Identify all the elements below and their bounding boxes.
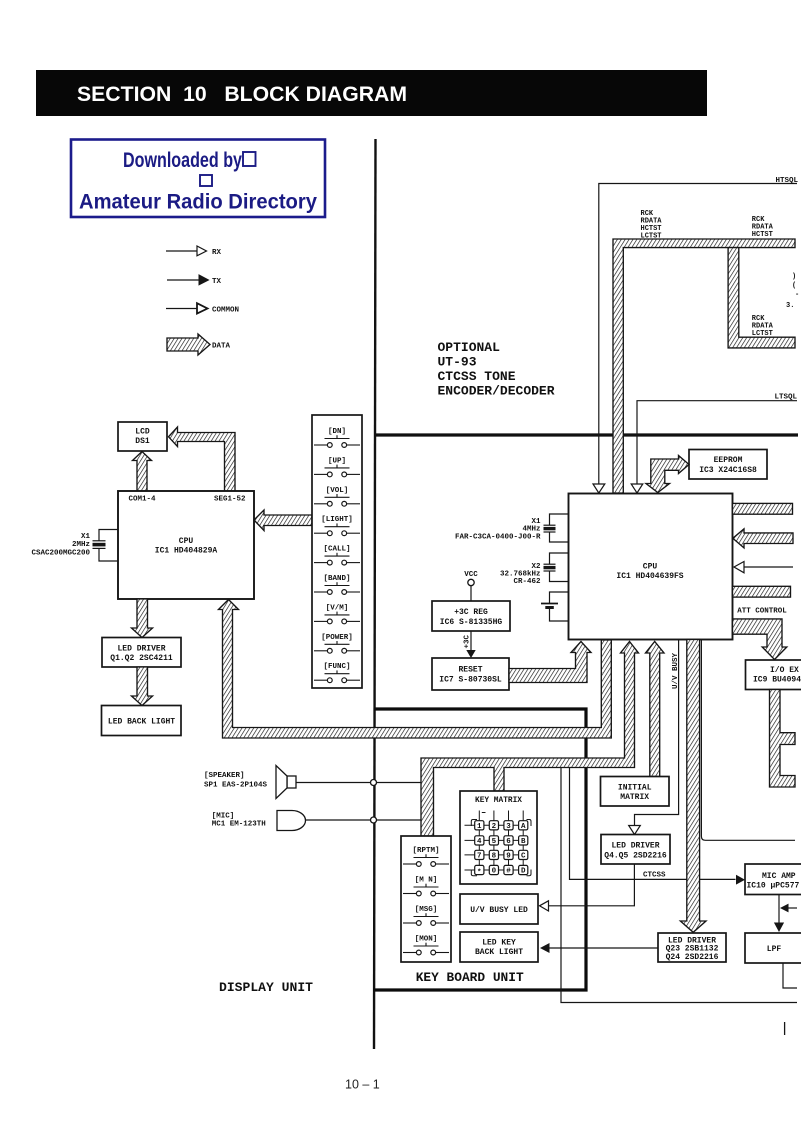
front panel switches DN..FUNC — [312, 415, 362, 688]
wire CTCSS feed (from bus down) — [570, 768, 736, 880]
svg-text:DS1: DS1 — [135, 437, 150, 446]
svg-text:OPTIONAL: OPTIONAL — [438, 340, 501, 355]
svg-text:MIC AMP: MIC AMP — [762, 872, 796, 881]
switch [VOL] — [314, 487, 360, 506]
display unit border line — [374, 139, 376, 1049]
data bus ATT control to I/O expander — [733, 619, 787, 660]
reset IC7 — [432, 658, 509, 690]
svg-text:+3C: +3C — [464, 634, 472, 648]
key 1 — [475, 821, 484, 831]
switch [MON] — [403, 936, 449, 955]
svg-text:ATT CONTROL: ATT CONTROL — [737, 608, 787, 616]
svg-text:CPU: CPU — [179, 537, 194, 546]
cpu IC1 HD404639FS — [569, 494, 733, 640]
svg-text:IC6 S-81335HG: IC6 S-81335HG — [440, 618, 503, 627]
svg-text:SECTION 10 BLOCK DIAGRAM: SECTION 10 BLOCK DIAGRAM — [77, 82, 407, 106]
initial matrix box — [601, 777, 670, 807]
key D — [519, 865, 528, 875]
keyboard switch column box — [401, 836, 451, 962]
switch [M N] — [403, 877, 449, 896]
svg-text:LED BACK LIGHT: LED BACK LIGHT — [108, 718, 175, 727]
svg-text:[FUNC]: [FUNC] — [323, 663, 350, 671]
VCC terminal — [464, 571, 478, 601]
svg-text:Q1.Q2 2SC4211: Q1.Q2 2SC4211 — [110, 654, 173, 663]
key 6 — [504, 836, 513, 846]
key * — [475, 865, 484, 877]
keyboard unit border — [373, 709, 586, 990]
data bus keyboard: CPU to key matrix and switches — [421, 642, 639, 837]
EEPROM IC3 — [689, 450, 767, 480]
key 8 — [489, 850, 498, 860]
key 2 — [489, 821, 498, 831]
crystal X2 32.768kHz — [500, 553, 569, 586]
svg-text:[MIC]: [MIC] — [212, 813, 235, 821]
data bus CTCSS unit lower branch — [728, 248, 795, 348]
svg-text:MC1 EM-123TH: MC1 EM-123TH — [212, 821, 266, 829]
svg-text:[SPEAKER]: [SPEAKER] — [204, 772, 245, 780]
svg-text:): ) — [792, 273, 796, 281]
node speaker junction — [371, 780, 377, 786]
wire speaker to keyboard — [296, 782, 422, 784]
svg-text:B: B — [521, 838, 526, 846]
svg-text:*: * — [477, 869, 482, 877]
wire page edge tick — [784, 1022, 786, 1035]
regulator IC6 — [432, 601, 510, 631]
data bus CPU to LED driver Q23 — [680, 640, 706, 933]
section header bar — [36, 70, 707, 116]
wire HTSQL — [593, 177, 799, 493]
arrow CTCSS into mic amp — [736, 875, 745, 885]
svg-text:COM1-4: COM1-4 — [129, 496, 157, 504]
svg-text:(: ( — [792, 282, 796, 290]
svg-text:A: A — [521, 823, 526, 831]
svg-text:+3C REG: +3C REG — [454, 608, 488, 617]
key # — [504, 865, 513, 875]
svg-text:I/O EX: I/O EX — [770, 666, 799, 675]
svg-text:CTCSS: CTCSS — [643, 872, 666, 880]
svg-text:10 – 1: 10 – 1 — [345, 1078, 380, 1092]
switch [LIGHT] — [314, 516, 360, 535]
legend TX arrow — [167, 275, 222, 286]
svg-text:C: C — [521, 853, 526, 861]
data bus LED driver to back light — [132, 667, 153, 706]
switch [BAND] — [314, 575, 360, 594]
svg-text:BACK LIGHT: BACK LIGHT — [475, 948, 523, 957]
I/O expander IC9 — [746, 660, 801, 690]
svg-text:2MHz: 2MHz — [72, 541, 90, 549]
svg-text:[MON]: [MON] — [415, 936, 438, 944]
wire LED driver Q23 to LED key back light — [550, 947, 659, 949]
svg-text:CSAC200MGC200: CSAC200MGC200 — [31, 550, 90, 558]
svg-text:EEPROM: EEPROM — [714, 456, 743, 465]
svg-text:HTSQL: HTSQL — [776, 177, 799, 185]
svg-text:2: 2 — [492, 823, 497, 831]
svg-text:RESET: RESET — [458, 666, 482, 675]
key 3 — [504, 821, 513, 831]
svg-text:-: - — [795, 291, 799, 299]
key 7 — [475, 850, 484, 860]
wire LPF output — [783, 963, 797, 988]
svg-text:[BAND]: [BAND] — [323, 575, 350, 583]
svg-text:LED KEY: LED KEY — [482, 939, 516, 948]
svg-text:LCTST: LCTST — [752, 330, 773, 338]
wire regulator to reset — [470, 631, 472, 651]
wire LTSQL — [631, 394, 797, 494]
switch [CALL] — [314, 546, 360, 565]
svg-text:VCC: VCC — [464, 571, 478, 579]
data bus reset to CPU — [509, 642, 591, 683]
net labels RCK RDATA HCTST — [752, 216, 774, 239]
LED key back light box — [460, 932, 538, 962]
svg-text:CPU: CPU — [643, 563, 658, 572]
wire long output to right edge — [561, 768, 797, 1003]
svg-text:[LIGHT]: [LIGHT] — [321, 516, 353, 524]
key 9 — [504, 850, 513, 860]
cpu IC1 HD404829A — [118, 491, 254, 599]
svg-text:1: 1 — [477, 823, 482, 831]
svg-text:5: 5 — [492, 838, 497, 846]
svg-text:LCTST: LCTST — [641, 233, 662, 241]
svg-text:DATA: DATA — [212, 343, 231, 351]
svg-text:SP1 EAS-2P104S: SP1 EAS-2P104S — [204, 782, 268, 790]
legend COMMON arrow — [166, 303, 239, 314]
U/V busy LED box — [460, 894, 538, 924]
data bus CPU to LED driver — [132, 599, 153, 638]
svg-text:MATRIX: MATRIX — [620, 793, 649, 802]
data bus I/O expander outputs — [770, 690, 796, 788]
svg-text:LTSQL: LTSQL — [775, 394, 798, 402]
net labels RCK RDATA LCTST — [752, 315, 774, 338]
svg-text:ENCODER/DECODER: ENCODER/DECODER — [438, 384, 555, 399]
LED driver Q4 Q5 — [601, 835, 670, 865]
svg-text:8: 8 — [492, 853, 497, 861]
speaker SP1 — [204, 766, 296, 799]
svg-text:9: 9 — [506, 853, 511, 861]
svg-text:DISPLAY UNIT: DISPLAY UNIT — [219, 980, 313, 995]
svg-text:UT-93: UT-93 — [438, 355, 477, 370]
svg-text:IC7 S-80730SL: IC7 S-80730SL — [439, 676, 502, 685]
svg-text:SEG1-52: SEG1-52 — [214, 496, 246, 504]
svg-text:KEY BOARD UNIT: KEY BOARD UNIT — [416, 970, 524, 985]
switch [V/M] — [314, 604, 360, 623]
svg-text:RX: RX — [212, 249, 222, 257]
data bus left CPU to main CPU — [219, 600, 612, 739]
svg-text:3: 3 — [506, 823, 511, 831]
data bus CPU COM1-4 to LCD — [133, 452, 152, 492]
legend RX arrow — [166, 246, 222, 257]
key matrix wiring — [465, 811, 532, 876]
switch [UP] — [314, 457, 360, 476]
OPTIONAL UT-93 label — [438, 340, 555, 399]
wire U/V busy CPU to LED driver Q4Q5 — [635, 640, 679, 826]
switch [MSG] — [403, 906, 449, 925]
svg-text:[VOL]: [VOL] — [326, 487, 349, 495]
svg-text:0: 0 — [492, 868, 497, 876]
svg-text:Q24 2SD2216: Q24 2SD2216 — [666, 953, 719, 962]
svg-text:6: 6 — [506, 838, 511, 846]
svg-text:D: D — [521, 868, 526, 876]
LCD DS1 — [118, 422, 167, 451]
svg-text:LED DRIVER: LED DRIVER — [611, 842, 659, 851]
switch [FUNC] — [314, 663, 360, 682]
wire from page edge into node — [788, 907, 798, 909]
optional unit bottom border line — [376, 433, 798, 436]
svg-text:4: 4 — [477, 838, 482, 846]
wire into CPU right — [744, 566, 793, 568]
svg-text:#: # — [506, 868, 511, 876]
wire AF out along bus — [701, 640, 795, 841]
svg-text:[MSG]: [MSG] — [415, 906, 438, 914]
switch [POWER] — [314, 634, 360, 653]
svg-text:3.: 3. — [786, 302, 794, 310]
downloaded-by stamp box — [71, 140, 325, 218]
svg-text:KEY MATRIX: KEY MATRIX — [475, 796, 522, 805]
svg-text:Q4.Q5 2SD2216: Q4.Q5 2SD2216 — [604, 852, 667, 861]
svg-text:[V/M]: [V/M] — [326, 604, 349, 612]
key C — [519, 850, 528, 860]
key matrix box — [460, 791, 537, 884]
svg-text:[M N]: [M N] — [415, 877, 438, 885]
node mic junction — [371, 817, 377, 823]
svg-text:[UP]: [UP] — [328, 457, 346, 465]
svg-text:Amateur Radio Directory: Amateur Radio Directory — [79, 191, 317, 214]
svg-text:X1: X1 — [81, 533, 91, 541]
microphone MC1 — [212, 811, 306, 831]
svg-text:IC1 HD404829A: IC1 HD404829A — [155, 547, 218, 556]
net labels RCK RDATA HCTST LCTST — [641, 210, 663, 241]
wire mic to keyboard — [306, 819, 422, 821]
svg-text:IC9 BU4094: IC9 BU4094 — [753, 676, 801, 685]
svg-text:IC10 µPC577: IC10 µPC577 — [747, 882, 800, 891]
clipped text fragments at page edge — [786, 273, 799, 310]
svg-text:4MHz: 4MHz — [522, 526, 540, 534]
svg-text:IC3 X24C16S8: IC3 X24C16S8 — [699, 466, 757, 475]
svg-text:LED DRIVER: LED DRIVER — [117, 645, 165, 654]
data bus CPU right port lower — [733, 586, 791, 597]
wire mic amp to LPF — [778, 895, 780, 924]
svg-text:[DN]: [DN] — [328, 428, 346, 436]
battery backup cell — [541, 592, 569, 621]
switch [RPTM] — [403, 847, 449, 866]
svg-text:COMMON: COMMON — [212, 307, 239, 315]
key 0 — [489, 865, 498, 875]
LPF box — [745, 933, 801, 963]
key 4 — [475, 836, 484, 846]
data bus CPU SEG1-52 to LCD — [169, 427, 236, 491]
data bus CPU right port upper — [733, 503, 793, 514]
svg-text:LCD: LCD — [135, 428, 150, 437]
crystal X1 2MHz — [31, 530, 118, 562]
crystal X1 4MHz — [455, 514, 569, 542]
data bus CTCSS unit upper — [613, 239, 795, 493]
legend DATA arrow — [167, 334, 231, 355]
svg-text:INITIAL: INITIAL — [618, 784, 652, 793]
switch [DN] — [314, 428, 360, 447]
key 5 — [489, 836, 498, 846]
svg-text:CTCSS TONE: CTCSS TONE — [438, 369, 516, 384]
LED driver Q23 Q24 — [658, 933, 726, 962]
data bus initial matrix to CPU — [646, 642, 665, 777]
svg-text:U/V BUSY LED: U/V BUSY LED — [470, 906, 528, 915]
data bus into CPU right — [733, 529, 793, 548]
svg-text:IC1 HD404639FS: IC1 HD404639FS — [616, 572, 683, 581]
svg-text:LPF: LPF — [767, 945, 782, 954]
data bus CPU to EEPROM — [646, 456, 689, 493]
key A — [519, 821, 528, 831]
svg-text:CR-462: CR-462 — [513, 578, 541, 586]
svg-text:[CALL]: [CALL] — [323, 546, 350, 554]
data bus switch panel to CPU — [254, 510, 312, 531]
LED back light — [102, 706, 182, 736]
LED driver Q1 Q2 — [102, 638, 181, 668]
key B — [519, 836, 528, 846]
svg-text:7: 7 — [477, 853, 482, 861]
svg-text:FAR-C3CA-0400-J00-R: FAR-C3CA-0400-J00-R — [455, 534, 541, 542]
svg-text:[RPTM]: [RPTM] — [412, 847, 439, 855]
svg-text:[POWER]: [POWER] — [321, 634, 353, 642]
wire LED driver Q4Q5 to U/V busy LED — [549, 864, 635, 906]
svg-text:TX: TX — [212, 278, 222, 286]
mic amp IC10 — [745, 864, 801, 895]
svg-text:Downloaded by: Downloaded by — [123, 149, 242, 172]
svg-text:HCTST: HCTST — [752, 231, 773, 239]
